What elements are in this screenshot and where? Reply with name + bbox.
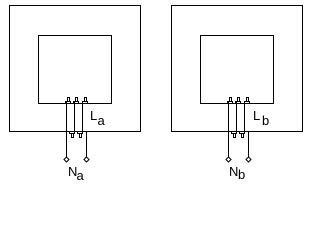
winding La turn 1 top loop xyxy=(66,98,71,104)
core A window xyxy=(39,36,112,104)
winding Lb turn 3 top loop xyxy=(245,98,250,104)
terminal node A1 (diamond) xyxy=(64,157,69,162)
winding Lb wire: turn 1 front conductor and left lead xyxy=(228,102,230,158)
winding Lb bottom loop 1 xyxy=(232,132,237,138)
label Na xyxy=(68,165,77,178)
winding La bottom loop 1 xyxy=(70,132,75,138)
winding La turn 2 top loop xyxy=(74,98,79,104)
winding La turn 3 top loop xyxy=(83,98,88,104)
winding La bottom loop 2 xyxy=(78,132,83,138)
label Nb xyxy=(229,165,238,178)
winding Lb wire: right lead xyxy=(248,132,250,158)
core B outer boundary xyxy=(172,6,303,132)
winding La wire: right lead xyxy=(86,132,88,158)
core B window xyxy=(201,36,274,104)
winding Lb bottom loop 2 xyxy=(240,132,245,138)
terminal node B2 (diamond) xyxy=(246,157,251,162)
winding Lb turn 2 top loop xyxy=(236,98,241,104)
winding La wire: turn 2 front conductor xyxy=(74,102,76,134)
winding Lb wire: turn 2 front conductor xyxy=(236,102,238,134)
label Lb xyxy=(253,109,260,122)
winding Lb wire: turn 3 front conductor xyxy=(244,102,246,134)
label La xyxy=(90,109,97,122)
core A outer boundary xyxy=(10,6,141,132)
winding La wire: turn 1 front conductor and left lead xyxy=(66,102,68,158)
winding Lb turn 1 top loop xyxy=(228,98,233,104)
terminal node B1 (diamond) xyxy=(226,157,231,162)
winding La wire: turn 3 front conductor xyxy=(82,102,84,134)
terminal node A2 (diamond) xyxy=(84,157,89,162)
